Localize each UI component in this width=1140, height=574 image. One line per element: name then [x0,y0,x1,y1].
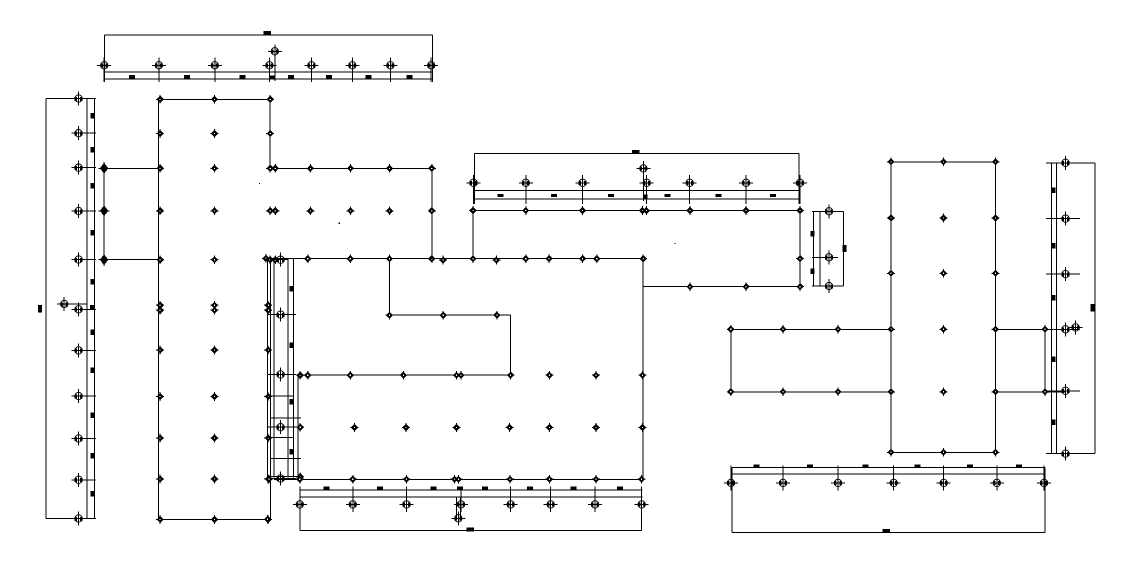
column markers right of S4 [264,371,305,524]
pile marker S11 extra [451,511,465,525]
building B1 wing right edge [431,168,433,258]
strip S1 upper line [104,71,433,73]
stray dot 2 [338,223,339,224]
channel S4 cross line 3 [268,436,295,438]
channel S4 line e [293,259,295,478]
building B2 bottom edge [274,478,643,480]
column markers S5 bottom edge [686,282,804,291]
pile marker strip2 extra [636,161,650,175]
pile labels column S6 [811,231,815,274]
stray dot 1 [259,183,260,184]
strip S2 inner line [86,99,88,519]
strip S11 left edge [299,490,301,531]
wing S8b right edge [1044,329,1046,392]
channel S4 cross line 4 [271,457,302,459]
strip S6 bottom cap [814,285,844,287]
strip S9 right edge [1044,468,1046,533]
corner markers B1 left wing [99,162,110,266]
dimension line D7 (S11) [300,530,642,532]
pile ticks column S4 [268,315,296,479]
strip S2 outer line [93,99,95,519]
pile ticks column S6 [812,211,838,286]
connector S2 extra [64,303,87,305]
wing S8b top edge [996,328,1066,330]
building B2 notch vertical 2 [510,315,512,375]
pile marker S10 extra [1069,320,1083,334]
building B3 bottom edge [891,451,996,453]
dimension text D1 [263,31,271,35]
pile markers column S4 [274,253,288,486]
strip S10 top cap [1052,162,1096,164]
channel S4 cross line 2 [271,417,302,419]
slab S5 right edge [799,211,801,287]
column markers B2 bottom edge [265,475,645,484]
pile marker S2 extra [57,297,71,311]
dimension line D4 (S6) [843,211,845,286]
building B3 right edge [995,162,997,453]
building B2 notch vertical 1 [389,259,391,316]
pile ticks row strip2 [474,175,801,204]
strip S5 lower line [474,198,801,200]
strip S9 lower line [732,473,1045,475]
column marker S8b top [1041,325,1049,334]
pile markers column S6 [822,204,836,293]
dimension text D5 [883,529,891,533]
dimension line D3 (strip2) [475,153,800,155]
channel S4 line c [273,259,275,478]
strip S9 left edge [731,468,733,533]
column markers channel S4 axis [262,254,270,263]
dimension tick D1 right [432,35,434,82]
pile labels row S9 [753,464,1022,467]
pile ticks row S9 [731,466,1044,491]
wing S8 top edge [731,328,891,330]
building B2 right edge [642,259,644,480]
channel S4 cross line 1 [268,395,294,397]
strip S10 line a [1051,163,1053,454]
building B1 wing top edge [270,167,432,169]
column markers wing S8 [727,325,842,396]
column markers B1 wing [306,164,435,263]
channel S4 axis line [267,258,269,478]
channel S4 line d [287,259,289,478]
channel S4 line b [270,259,272,520]
strip S6 line b [819,211,821,286]
building B3 top edge [891,161,996,163]
building B1 bottom edge [159,519,271,521]
connector S11 extra right [460,497,462,518]
dimension line D2 (left strip) [45,99,47,519]
dimension line D5 (S9) [732,531,1045,533]
pile label S1 extra [270,75,275,79]
column markers grid B3 [887,157,1000,456]
building B2 left edge [297,375,299,479]
column markers grid B1 [156,95,279,524]
pile marker S1 extra [268,44,282,58]
slab S5 bottom edge right [643,286,800,288]
building B1 left edge [158,99,160,519]
pile labels column S10 [1052,188,1056,426]
dimension text D3 [632,150,640,154]
building B2 notch horizontal 2 [298,374,511,376]
wing S8 left edge [730,329,732,392]
dimension text D4 [843,245,847,252]
slab S5 step vertical [642,259,644,287]
pile label strip2 extra [643,195,648,199]
column markers B2 notch [386,311,515,380]
building B1 right edge upper [269,99,271,168]
pile labels row S1 [129,75,413,78]
column markers B2 row 3 [304,371,647,380]
column marker S5 right mid [796,254,804,263]
dimension text D2 [38,305,42,313]
pile markers row strip2 [467,176,808,190]
slab S5 left edge [472,211,474,259]
pile labels column S4 [289,286,293,455]
wing S8 bottom edge [731,391,891,393]
channel S4 cross line 5 [268,475,298,477]
building B1 top edge [159,98,271,100]
strip S5 upper line [474,189,801,191]
pile ticks row S11 [300,487,642,513]
strip S2 top cap [46,98,96,100]
pile markers column S2 [72,92,86,526]
building B1 left wing bottom [104,259,158,261]
pile ticks column S10 [1046,163,1080,454]
dimension text D7 [466,528,474,532]
column marker S8b bottom [1041,387,1049,396]
pile ticks column S2 [72,99,96,519]
dimension tick D3 right [798,154,800,204]
column markers S5 top edge [469,206,804,215]
pile labels row strip2 [497,194,776,197]
building B1 left wing top [104,167,158,169]
dimension tick D1 left [104,35,106,82]
strip S11 upper line [300,489,643,491]
pile markers column S10 [1059,156,1073,461]
strip S10 bottom cap [1052,453,1096,455]
dimension tick D3 left [474,154,476,204]
strip S6 top cap [814,210,844,212]
wing S8b bottom edge [996,391,1066,393]
pile markers row S9 [724,476,1051,490]
dimension line D6 (S10) [1094,163,1096,454]
strip S2 bottom cap [46,518,96,520]
slab S5 top edge [473,210,800,212]
strip S6 line a [813,211,815,286]
dimension text D6 [1091,304,1095,312]
pile ticks row S1 [104,58,431,83]
pile tick S1 extra [274,53,276,81]
column marker S5 left bottom [469,254,477,263]
strip S11 lower line [300,496,643,498]
pile labels row S11 [324,486,623,489]
column markers B2 row 4 [351,423,647,432]
strip S10 line b [1056,163,1058,454]
building B1 left wing left edge [103,168,105,259]
stray dot 3 [674,243,675,244]
connector S11 extra left [455,497,457,518]
strip S11 right edge [641,490,643,531]
strip S9 upper line [732,467,1045,469]
pile markers row S11 [293,497,649,511]
pile label S2 extra [90,305,94,309]
column markers B2 top edge [304,254,647,264]
building B3 left edge [890,162,892,453]
pile markers row S1 [97,58,438,72]
building B2 notch horizontal 1 [390,314,511,316]
strip S1 lower line [104,78,433,80]
building B2 top edge [266,258,643,260]
dimension line D1 (top strip) [105,34,433,36]
pile labels column S2 [91,113,95,496]
pile tick strip2 extra [642,161,644,201]
